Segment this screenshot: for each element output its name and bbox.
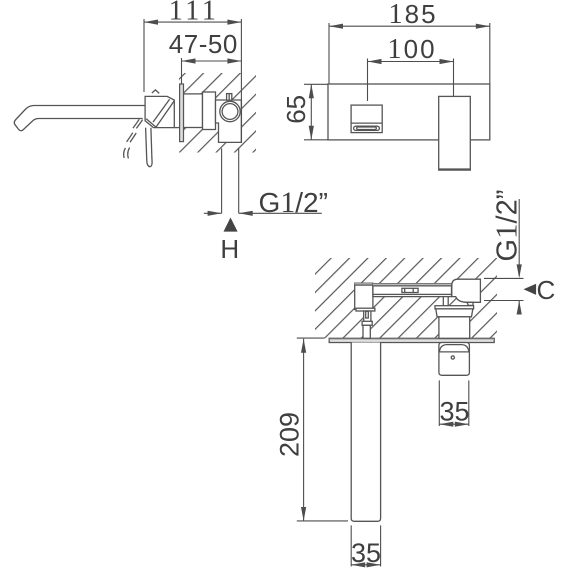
svg-text:G1/2”: G1/2”: [258, 186, 327, 219]
svg-text:185: 185: [388, 0, 437, 30]
svg-text:G1/2”: G1/2”: [489, 190, 524, 262]
svg-text:47-50: 47-50: [169, 29, 238, 59]
svg-text:111: 111: [169, 0, 220, 27]
svg-text:100: 100: [387, 34, 436, 65]
svg-text:C: C: [537, 275, 556, 305]
svg-text:H: H: [220, 234, 239, 264]
svg-text:209: 209: [275, 412, 305, 457]
svg-text:65: 65: [281, 95, 311, 124]
svg-text:35: 35: [439, 397, 469, 427]
svg-text:35: 35: [351, 538, 381, 568]
